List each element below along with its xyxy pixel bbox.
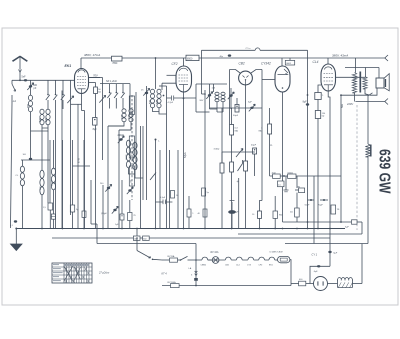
svg-text:380V, 43mA: 380V, 43mA [332, 53, 348, 57]
trimmer C29 [128, 189, 131, 191]
wire screen loop [202, 49, 256, 51]
svg-text:50μF: 50μF [233, 115, 239, 117]
wire R8 v [269, 108, 271, 124]
wire C14 down [254, 154, 256, 176]
resistor R29 15k [278, 181, 285, 187]
trimmer C27 24pF [113, 209, 116, 211]
resistor R24 [82, 211, 86, 217]
tube CF2 internals [180, 68, 188, 71]
resistor R5 bias [315, 93, 321, 100]
resistor R27 [203, 209, 207, 217]
wire mid h1 [107, 126, 109, 229]
wire vert a [47, 100, 49, 109]
junction dots on chassis rail [41, 228, 43, 230]
svg-text:KT 4: KT 4 [162, 273, 168, 276]
wire heater return [162, 285, 291, 287]
wire secondary top [365, 68, 367, 77]
wire lb v169 [169, 150, 171, 229]
switch S1b [55, 94, 57, 96]
wire v205 [204, 90, 206, 229]
wire EK1 grid2 right [89, 77, 101, 79]
coil L12 CL [20, 166, 24, 172]
wire v196 down [195, 244, 197, 261]
antenna plug break [19, 70, 22, 73]
svg-text:(24)pF: (24)pF [101, 213, 108, 215]
wire v341 [340, 95, 342, 222]
wire band sw col2 [55, 80, 57, 94]
speaker LS1 cone [384, 74, 389, 91]
wire rail234 [238, 233, 362, 235]
gang dashed line [131, 95, 133, 200]
capacitor C3 8uF [93, 118, 97, 126]
resistor R12 02 [258, 211, 262, 218]
resistor R28 [273, 211, 278, 218]
inductor choke [365, 144, 370, 157]
svg-text:CL4: CL4 [313, 60, 319, 64]
svg-text:57μA: 57μA [184, 152, 187, 158]
capacitor C17 100p [14, 220, 17, 222]
wire CF2 anode [183, 58, 185, 66]
wire C3 down [95, 125, 97, 228]
svg-text:4μ: 4μ [237, 181, 239, 183]
variable capacitor VC3 [129, 166, 134, 186]
coil L2 600 [40, 109, 44, 114]
wire c26 down [329, 253, 331, 266]
wire rail243 left [97, 243, 196, 245]
resistor R10 [230, 162, 234, 172]
wire speaker top [378, 68, 380, 79]
wire EK1 cath join [82, 110, 85, 112]
capacitor C15 50uF [310, 199, 312, 201]
wire band sw col1 [47, 80, 49, 94]
trimmer C8 125pF [209, 84, 211, 109]
resistor R7 03M [230, 125, 234, 136]
wire plug cap loop [310, 266, 330, 283]
antenna [12, 56, 27, 62]
dashed shield line [356, 105, 358, 230]
wire R5 down [317, 100, 319, 111]
connector break [195, 271, 198, 276]
switch S2b [115, 84, 117, 92]
wire L1 down [30, 112, 32, 126]
tube CB2 envelope [239, 71, 253, 85]
capacitor C25 6uF [317, 265, 320, 267]
svg-text:16000: 16000 [126, 154, 128, 160]
transformer T1 secondary [363, 77, 367, 90]
coil L4 600 [122, 109, 126, 113]
wire barretter down [290, 260, 291, 286]
wire lb v140 [140, 126, 142, 229]
wire R7 up [231, 108, 233, 125]
svg-text:0061: 0061 [286, 63, 292, 65]
wire lb v146 [146, 162, 148, 200]
wire vert e [70, 140, 72, 215]
capacitor C24 [194, 278, 198, 281]
wire choke to right [353, 283, 363, 285]
wire R6 down [317, 119, 319, 229]
svg-text:350: 350 [27, 103, 30, 108]
wire heater left [162, 259, 170, 261]
tube CY342 internals [284, 69, 288, 73]
wire mid h2 [118, 130, 120, 229]
wire mid join [71, 103, 82, 105]
wire vert d [61, 91, 63, 229]
resistor R9 [220, 163, 224, 173]
wire v238 [238, 178, 240, 229]
wire top B+ rail [81, 57, 385, 59]
coil L8 [126, 140, 130, 147]
wire pot row [222, 151, 255, 153]
switch S2a [109, 84, 111, 92]
coil L9 [133, 142, 137, 149]
coil L3 800 [46, 109, 50, 114]
coil L13 [40, 170, 44, 178]
wire osc top [159, 85, 167, 87]
resistor R19 1.5k [48, 203, 53, 210]
svg-text:500: 500 [149, 99, 152, 104]
wire rail243 right [285, 243, 368, 245]
svg-text:40μF: 40μF [251, 144, 257, 146]
connector chevron top right [385, 55, 388, 61]
resistor R18 B [352, 220, 358, 224]
wire CB2 cathode [245, 85, 247, 152]
connector chevron right mid [385, 99, 388, 105]
svg-text:8μF: 8μF [303, 100, 308, 103]
wire mid h130 [119, 129, 131, 131]
svg-text:3μF: 3μF [248, 102, 252, 104]
heater chain bumps [202, 257, 275, 260]
capacitor C32 40uF [228, 54, 231, 56]
capacitor C-ant [24, 79, 27, 81]
svg-text:RV 32A: RV 32A [211, 251, 219, 254]
svg-text:8μF: 8μF [93, 128, 98, 131]
svg-text:600: 600 [156, 99, 159, 104]
resistor R20 25k [128, 213, 132, 221]
wire IF top [196, 83, 227, 85]
wire antenna row [12, 79, 75, 81]
switch S1a [47, 94, 49, 96]
svg-text:CF2: CF2 [172, 62, 178, 66]
barretter U938 [278, 256, 290, 262]
resistor R16 [295, 208, 300, 217]
wire R7 down [231, 135, 233, 162]
wire coil bottoms [153, 108, 167, 114]
wire CB2 left lead [230, 70, 241, 74]
svg-text:5nF: 5nF [22, 76, 27, 79]
svg-text:70V: 70V [93, 74, 98, 78]
wire lb v50 [49, 140, 51, 160]
pilot lamp [212, 257, 219, 264]
resistor R3 50k [95, 83, 97, 88]
wire rail238 [52, 237, 330, 239]
wire L8 L9 bottom [129, 168, 144, 178]
wire lb v103 [102, 185, 104, 229]
switch S4 gang [150, 173, 156, 181]
resistor R17 [331, 205, 336, 214]
svg-text:3,5kΩ: 3,5kΩ [214, 149, 220, 151]
wire v262 down [261, 108, 263, 201]
svg-text:CB2: CB2 [239, 61, 245, 65]
svg-text:27 μΩ/cm: 27 μΩ/cm [98, 271, 109, 274]
capacitor C16 70uF [323, 199, 325, 201]
svg-text:70μF: 70μF [318, 204, 324, 206]
wire row176 [270, 175, 341, 177]
trimmer C1 300pF [30, 80, 32, 95]
trimmer C9 [230, 88, 232, 109]
tube CF2 envelope [176, 66, 192, 92]
wire choke vert [367, 95, 369, 144]
trimmer C4 [89, 77, 103, 79]
capacitor C22 [120, 214, 124, 220]
svg-text:16000: 16000 [133, 156, 135, 162]
wire CF2 left lower [162, 83, 176, 90]
coil L5 600 [129, 109, 133, 113]
wire row2 top [100, 83, 130, 85]
junction osc [163, 95, 165, 97]
wire vc col down [135, 92, 137, 170]
power plug P1 [314, 277, 328, 291]
wire plug right [328, 283, 337, 285]
wire rail222 [283, 221, 352, 223]
wire CB2 right lead [250, 70, 262, 74]
wire lb v97 [96, 224, 98, 244]
wire speaker return [341, 94, 368, 96]
svg-text:639 GW: 639 GW [376, 149, 393, 194]
capacitor C7 4.7uF [172, 96, 174, 101]
ground symbol [15, 229, 17, 245]
inductor L15 mains choke [338, 280, 353, 288]
resistor R8 1M [268, 124, 272, 134]
wire band sw col3 [62, 80, 64, 94]
wire primary bottom [354, 93, 356, 102]
wire heater feed [136, 238, 138, 251]
wire v314 [313, 176, 315, 244]
wire IF bottom [210, 109, 224, 112]
wire main rail chassis [16, 228, 345, 230]
trimmer C12 [250, 107, 253, 109]
svg-text:1,5: 1,5 [278, 184, 281, 186]
table valve chart [52, 263, 92, 283]
tube CL4 internals [325, 67, 332, 70]
transformer T1 core [359, 72, 361, 93]
wire y166 bus [73, 165, 91, 167]
wire CY342 top [281, 58, 283, 66]
wire CL4 anode right [336, 76, 366, 78]
wire mid h108 [196, 111, 210, 113]
tube CB2 internals [243, 76, 249, 78]
switch S1c [62, 94, 64, 96]
svg-text:600: 600 [128, 114, 131, 119]
wire vert b [47, 131, 49, 203]
tube EK1 internals [78, 70, 85, 73]
wire CF2 cathode [183, 92, 185, 229]
svg-text:16000: 16000 [51, 180, 53, 186]
svg-text:8500: 8500 [187, 57, 193, 60]
wire osc col [166, 86, 168, 229]
wire EK1 right lower [89, 82, 96, 84]
svg-text:U 938/CY ACE: U 938/CY ACE [270, 251, 284, 254]
coil L14 [51, 168, 55, 175]
speaker LS1 pole [385, 79, 387, 87]
wire screen loop left drop [201, 50, 203, 94]
coil L6 500 [150, 89, 154, 93]
wire y160 bus [21, 159, 50, 161]
svg-text:7800: 7800 [112, 63, 118, 65]
wire lb v178 [177, 150, 179, 229]
svg-text:5μ: 5μ [76, 209, 78, 211]
tube EK1 envelope [75, 69, 89, 94]
svg-text:6μF: 6μF [333, 252, 337, 254]
trimmer C28 240pF [107, 187, 110, 189]
capacitor C10 50uF [235, 105, 239, 113]
svg-text:90V: 90V [200, 100, 204, 102]
svg-text:50μF: 50μF [305, 204, 311, 206]
switch LA arm [11, 80, 13, 84]
wire left drop [11, 95, 13, 228]
resistor R11 [244, 161, 248, 171]
wire CB2 v left [229, 70, 231, 125]
wire EK1 anode to rail [80, 58, 82, 69]
svg-text:800: 800 [45, 117, 48, 122]
wire vert c [55, 109, 57, 229]
trimmer C2 [70, 80, 72, 140]
switch S6 heater [137, 251, 151, 259]
coil L1 350 [28, 95, 32, 100]
wire CL4 anode [327, 58, 329, 64]
wire EK1 cathode down [81, 94, 83, 111]
resistor R23 600 [299, 281, 306, 286]
resistor R30 [202, 188, 206, 196]
variable capacitor VC1 [129, 96, 134, 115]
svg-text:CBM2: CBM2 [201, 265, 207, 267]
wire mid v143 [142, 126, 144, 162]
wire L4 bottom [108, 122, 124, 126]
capacitor C21 50u [70, 205, 74, 212]
wire h108 mid [210, 107, 263, 109]
svg-text:220V: 220V [346, 102, 353, 106]
resistor boxes 5k 5k [133, 236, 140, 240]
wire trafo top rail [345, 67, 379, 69]
svg-text:5μF: 5μF [345, 226, 349, 228]
wire joining L2 L3 bottom [31, 125, 49, 131]
wire CL4 cathode [328, 91, 330, 251]
capacitor C26 6uF [328, 251, 331, 253]
wire plug left [291, 283, 299, 285]
resistor R4 0061 [289, 58, 291, 60]
wire lb v137 [136, 229, 138, 239]
switch S2c [122, 84, 124, 92]
svg-text:kΩ: kΩ [98, 92, 101, 94]
svg-text:380V, 17mA: 380V, 17mA [84, 53, 100, 57]
resistor R1 1800 ohm [112, 56, 123, 61]
tube CY342 envelope [275, 66, 290, 92]
trimmer C18 100pF [29, 158, 32, 160]
wire lb v91 [90, 180, 92, 224]
wire lb v155 [155, 140, 157, 229]
svg-text:EK1: EK1 [65, 64, 72, 68]
wire lb v122 [121, 180, 123, 214]
svg-text:5μ: 5μ [207, 192, 209, 194]
svg-text:5kΩ: 5kΩ [342, 104, 344, 108]
svg-text:600: 600 [121, 114, 124, 119]
svg-text:5kΩ: 5kΩ [143, 239, 147, 241]
switch S3 [238, 164, 243, 172]
tube CL4 envelope [321, 64, 336, 91]
transformer T1 primary [352, 73, 356, 94]
svg-text:0,1μF: 0,1μF [160, 197, 166, 199]
wire v196 [195, 84, 197, 112]
wire vert g [84, 111, 86, 229]
wire R3 down [95, 94, 97, 118]
capacitor C23 01 [163, 200, 165, 205]
wire lb v62 [62, 140, 64, 229]
switch S5 mains [178, 259, 181, 261]
svg-text:CY342: CY342 [261, 61, 271, 65]
wire L5 bottom [119, 122, 131, 130]
wire CL4 grid left [318, 85, 321, 93]
svg-text:4,7μF: 4,7μF [168, 102, 174, 104]
trimmer C5 25 [146, 86, 148, 162]
resistor R26 1k [187, 209, 191, 217]
capacitor C11 100pF [236, 106, 238, 111]
svg-text:6μF: 6μF [314, 271, 318, 273]
svg-text:600: 600 [39, 117, 42, 122]
wire CF2 grid left [167, 74, 177, 76]
wire lb v160 [159, 150, 161, 229]
wire mid h126 [108, 125, 124, 127]
speaker LS1 driver [376, 78, 384, 88]
resistor R2 Ku8500 [186, 55, 199, 60]
resistor R25 10 [171, 191, 175, 199]
wire trafo primary top [354, 58, 356, 73]
svg-text:NF 1,2kΩ: NF 1,2kΩ [106, 80, 117, 83]
coil L10 [213, 84, 215, 92]
wire return left end [161, 260, 163, 286]
wire CY342 cathode [282, 92, 284, 222]
wire 220V rail [355, 101, 384, 103]
capacitor C30 elco [228, 210, 236, 214]
potentiometer arrow [236, 149, 243, 158]
svg-text:R60: R60 [279, 214, 282, 216]
wire osc anode [155, 58, 157, 89]
wire CY342 grid left [262, 79, 275, 81]
svg-text:MΩ: MΩ [235, 130, 239, 132]
wire v222 [221, 108, 223, 163]
capacitor C31 [285, 176, 287, 190]
capacitor C19 [51, 214, 55, 219]
wire lb v72 [72, 140, 74, 205]
coil L7 600 [157, 89, 161, 93]
variable capacitor VC2 [129, 136, 134, 158]
svg-text:LA: LA [13, 99, 16, 103]
svg-text:CY 1: CY 1 [312, 252, 318, 256]
wire CB2 v right [261, 70, 263, 109]
wire secondary bottom [365, 88, 377, 95]
coil L11 [221, 92, 225, 95]
resistor R6 150k [315, 111, 320, 119]
switch speaker tap [368, 93, 373, 96]
